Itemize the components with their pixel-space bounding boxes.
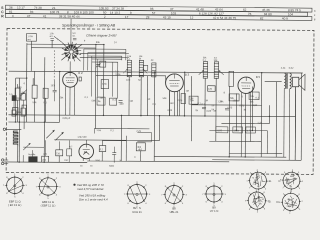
wire B6 top stub [85, 140, 87, 144]
capacitor C31 [112, 152, 116, 154]
svg-text:2: 2 [257, 169, 258, 171]
wire B3 pins [168, 91, 170, 116]
svg-text:8: 8 [249, 209, 250, 211]
trimmer cap C2b [73, 37, 76, 39]
svg-text:18: 18 [258, 200, 260, 202]
resistor R3 [43, 88, 48, 98]
svg-text:ant.: ant. [27, 38, 31, 41]
svg-text:104: 104 [288, 12, 293, 16]
svg-text:9: 9 [245, 200, 246, 202]
wire [113, 154, 115, 162]
svg-text:47: 47 [27, 14, 31, 18]
wire [51, 40, 53, 47]
wire [22, 100, 24, 108]
wire [125, 136, 127, 161]
svg-text:B8: B8 [172, 206, 176, 210]
svg-text:63: 63 [257, 186, 259, 188]
resistor R21 [181, 94, 186, 104]
wire vertical osc [121, 56, 123, 60]
wire vertical osc [83, 49, 85, 70]
capacitor C22 [202, 106, 206, 108]
wire [44, 140, 46, 156]
svg-text:9: 9 [130, 11, 132, 15]
tube socket diagram V5 (UY21) [206, 186, 222, 202]
svg-text:76: 76 [248, 12, 252, 16]
table row S [5, 5, 312, 12]
wire [173, 92, 175, 116]
svg-text:7: 7 [282, 187, 283, 189]
wire osc loop 3 [88, 55, 122, 57]
coil L6 [152, 63, 156, 77]
svg-text:B 3: B 3 [185, 73, 190, 77]
wire vertical [251, 87, 253, 131]
wire [17, 146, 19, 162]
wire vertical [268, 105, 270, 123]
wire mid bus [8, 115, 295, 117]
junction [19, 121, 20, 122]
wire [54, 36, 62, 42]
svg-text:6: 6 [298, 172, 299, 174]
coil box L3 [12, 108, 18, 115]
svg-text:82: 82 [260, 16, 264, 20]
svg-text:D.: D. [277, 200, 280, 204]
svg-text:1M: 1M [130, 100, 133, 103]
voltage diagram socket D [282, 193, 299, 210]
svg-text:62: 62 [243, 8, 247, 12]
svg-text:B 2: B 2 [78, 71, 83, 75]
wire vertical [183, 72, 185, 116]
svg-text:38 31 58 40 44: 38 31 58 40 44 [59, 14, 80, 18]
svg-text:82: 82 [262, 199, 264, 201]
switch contact S5 [23, 144, 29, 150]
svg-text:B6: B6 [84, 150, 88, 154]
svg-text:3: 3 [248, 193, 249, 195]
junction [184, 115, 185, 116]
trimmer arrow T1a [123, 70, 127, 74]
note text block [73, 184, 75, 186]
svg-text:B 5: B 5 [256, 75, 261, 79]
IF transformer T2 winding 2 [214, 62, 219, 79]
wire top bus 2 [31, 47, 95, 49]
capacitor C5 [79, 77, 81, 81]
wire left link b [16, 97, 21, 99]
resistor box R26 [216, 127, 228, 133]
coil box L1 [26, 34, 36, 42]
svg-text:42 6 54 34 36 75: 42 6 54 34 36 75 [213, 16, 237, 20]
wire osc loop 2 [88, 51, 126, 53]
wire vertical [140, 77, 142, 116]
svg-text:A.: A. [269, 179, 272, 183]
wire osc loop 4 [92, 58, 122, 60]
wire [101, 141, 103, 146]
svg-text:40 9: 40 9 [282, 17, 288, 21]
svg-text:74: 74 [252, 177, 254, 179]
svg-text:4: 4 [299, 188, 300, 190]
svg-text:2x50: 2x50 [95, 160, 101, 162]
svg-text:B9: B9 [212, 205, 216, 209]
svg-text:8: 8 [265, 172, 266, 174]
svg-text:( EF 13 Ω ): ( EF 13 Ω ) [8, 203, 21, 207]
junction [18, 161, 19, 162]
coupling box K4 [21, 108, 26, 116]
wire vertical osc [87, 52, 89, 70]
dropper box [56, 150, 63, 156]
wire vertical osc [125, 49, 127, 60]
gang link dashed [53, 50, 55, 80]
svg-text:12: 12 [190, 16, 194, 20]
svg-text:74 38: 74 38 [34, 6, 42, 10]
wire bias line [94, 128, 149, 130]
svg-text:B2 - S: B2 - S [133, 206, 141, 210]
capacitor C12 [143, 65, 148, 70]
svg-text:49: 49 [257, 177, 259, 179]
wire left link a [16, 77, 27, 79]
junction [204, 115, 205, 116]
wire vertical [102, 45, 104, 116]
wire [93, 129, 95, 134]
svg-text:14 10 2: 14 10 2 [110, 11, 121, 15]
svg-text:91: 91 [259, 203, 261, 205]
wire [58, 141, 60, 149]
wire vertical [128, 77, 130, 116]
wire vertical [58, 72, 60, 123]
svg-text:0,05: 0,05 [228, 106, 233, 109]
wire vertical [146, 76, 148, 116]
svg-text:2: 2 [104, 15, 106, 19]
wire [30, 41, 32, 71]
svg-text:1 SW: 1 SW [27, 36, 33, 38]
wire vertical osc [112, 62, 114, 96]
svg-text:4: 4 [257, 212, 258, 214]
switch S3 contact [55, 133, 62, 140]
wire [54, 80, 56, 90]
wire grid line [96, 74, 166, 76]
wire det line [209, 129, 267, 131]
wire [113, 147, 115, 153]
svg-text:ant: ant [49, 35, 52, 38]
component box Z2 [110, 98, 117, 105]
trimmer arrow 2 [220, 71, 224, 75]
junction [26, 77, 27, 78]
svg-text:Netafbr.: Netafbr. [28, 153, 36, 156]
wire vertical [300, 73, 303, 160]
svg-text:1M: 1M [205, 99, 208, 102]
svg-text:0,02: 0,02 [253, 105, 258, 107]
wire osc loop 1 [84, 48, 126, 50]
wire AVC bus right [221, 122, 269, 124]
wire left link c [16, 111, 21, 113]
svg-text:88: 88 [293, 175, 295, 177]
component box Z1 [97, 97, 105, 105]
svg-text:7: 7 [249, 188, 250, 190]
junction [245, 156, 246, 157]
tube B6 rectifier [79, 144, 94, 159]
mains terminal [1, 159, 3, 161]
capacitor C3 [53, 89, 57, 91]
resistor box R28 [246, 127, 256, 133]
wire B3 grid [165, 76, 167, 83]
svg-text:1,5k 500: 1,5k 500 [77, 136, 87, 139]
svg-text:EBF 11 Ω: EBF 11 Ω [42, 200, 54, 204]
junction [103, 115, 104, 116]
wire [54, 92, 56, 101]
svg-text:28: 28 [146, 15, 150, 19]
junction [121, 115, 122, 116]
junction [43, 162, 44, 163]
junction [140, 115, 141, 116]
wire [102, 140, 126, 142]
svg-text:150k: 150k [115, 73, 121, 76]
oscillator coil L5 [101, 80, 109, 89]
junction [261, 72, 262, 73]
tube socket diagram V2 (EBF11) [39, 178, 56, 195]
output transformer T3 [284, 73, 286, 89]
svg-text:4tr: 4tr [151, 59, 154, 62]
IF transformer T2 winding 1 [203, 62, 208, 79]
svg-text:51: 51 [288, 200, 290, 202]
tube B4 [238, 77, 254, 93]
junction [44, 122, 45, 123]
wire [4, 159, 8, 161]
svg-text:82: 82 [294, 178, 296, 180]
junction [15, 121, 16, 122]
wire [81, 43, 96, 45]
junction [269, 116, 270, 117]
wire vertical [275, 82, 277, 157]
table row C [5, 9, 307, 16]
wire [101, 152, 103, 161]
wire out line 2 [212, 159, 301, 162]
wire vertical [294, 87, 296, 160]
wire vertical osc [97, 59, 99, 96]
svg-text:4: 4 [12, 14, 14, 18]
junction [59, 71, 60, 72]
svg-text:9: 9 [283, 210, 284, 212]
wire [4, 162, 8, 164]
wire vertical [235, 93, 237, 130]
wire [44, 98, 46, 122]
wire fb line 2 [209, 140, 261, 142]
voltage diagram socket C [283, 172, 300, 189]
wire vertical [168, 91, 170, 116]
wire vertical [244, 93, 246, 156]
chassis dashed border [6, 29, 314, 175]
mains switch S4 [29, 157, 38, 163]
svg-text:93: 93 [30, 10, 34, 14]
svg-text:150: 150 [170, 102, 175, 105]
switch S2 contact [46, 131, 53, 138]
svg-text:100: 100 [126, 79, 131, 82]
svg-text:2: 2 [302, 201, 303, 203]
wire [73, 86, 75, 115]
wire [23, 146, 44, 148]
svg-text:71: 71 [253, 184, 255, 186]
svg-text:2: 2 [290, 191, 291, 193]
wire vertical [94, 45, 97, 129]
junction [229, 156, 230, 157]
coupling box K3 [12, 110, 16, 116]
svg-text:B.: B. [269, 199, 272, 203]
wire fb line [192, 104, 262, 106]
svg-text:1: 1 [289, 213, 290, 215]
wire vertical [43, 57, 46, 162]
wire osc coupling [80, 52, 129, 54]
wire [245, 93, 247, 156]
trimmer arrow T1b [144, 70, 148, 74]
svg-text:EBF 11 Ω: EBF 11 Ω [9, 199, 21, 203]
svg-text:2M: 2M [100, 97, 103, 100]
wire [69, 87, 71, 115]
wire vertical [190, 76, 192, 141]
svg-text:35: 35 [291, 205, 293, 207]
tube socket diagram V3 (UCH21) [128, 185, 147, 204]
wire left mid link [54, 139, 159, 142]
svg-text:1: 1 [246, 181, 247, 183]
junction [252, 130, 253, 131]
wire [249, 92, 251, 141]
coil box L4 [22, 105, 27, 115]
wire vertical [215, 78, 217, 141]
svg-text:9: 9 [256, 189, 257, 191]
svg-text:0,02: 0,02 [289, 67, 294, 70]
table row R [5, 14, 312, 21]
wire gnd link [87, 160, 229, 163]
wire vertical [176, 91, 178, 116]
speaker LS [292, 77, 298, 87]
svg-text:0,02: 0,02 [240, 104, 245, 107]
svg-text:30: 30 [253, 182, 255, 184]
wire [33, 98, 35, 122]
svg-text:Dim a 1 ørste med 4,4: Dim a 1 ørste med 4,4 [79, 197, 108, 201]
wire [16, 100, 18, 122]
wire vertical [228, 86, 230, 156]
svg-text:4: 4 [265, 188, 266, 190]
wire vertical [120, 116, 122, 162]
trimmer C2 [22, 91, 26, 93]
fuse box [42, 156, 49, 162]
junction [103, 44, 104, 45]
voltage diagram socket B [248, 192, 265, 209]
electrolytic C30 [136, 143, 145, 151]
tube socket diagram V4 (UBL21) [165, 186, 183, 204]
svg-text:72: 72 [254, 180, 256, 182]
wire [23, 115, 25, 129]
svg-text:1: 1 [292, 170, 293, 172]
svg-text:43 10: 43 10 [163, 15, 171, 19]
svg-text:( EBF 11 Ω ): ( EBF 11 Ω ) [41, 204, 56, 208]
trimmer arrow [199, 71, 203, 75]
wire B1 pins [64, 87, 66, 116]
svg-text:5: 5 [302, 181, 303, 183]
svg-text:UCH 21: UCH 21 [132, 210, 142, 214]
terminal T3 [3, 128, 5, 130]
resistor R2 [32, 85, 37, 98]
svg-text:8: 8 [264, 209, 265, 211]
svg-text:0,05: 0,05 [178, 99, 183, 102]
wire osc loop 5 [92, 61, 118, 63]
wire vertical osc [91, 56, 93, 96]
wire [58, 156, 60, 162]
mains terminal 2 [1, 162, 3, 164]
wire vertical [204, 78, 206, 116]
svg-text:39: 39 [291, 203, 293, 205]
coupling box K1 [12, 96, 16, 101]
svg-text:74: 74 [289, 186, 291, 188]
wire HT bus [9, 71, 303, 73]
wire [137, 141, 151, 143]
wire [150, 132, 152, 141]
svg-text:88: 88 [287, 179, 289, 181]
wire gnd bus [4, 161, 87, 164]
svg-text:9: 9 [299, 209, 300, 211]
wire vertical [14, 78, 16, 122]
wire [137, 131, 151, 133]
wire AVC bus [8, 121, 59, 123]
tube B3 [166, 74, 184, 92]
resistor R30 [67, 149, 72, 156]
tube B1 [63, 72, 78, 87]
coupling box K2 [21, 94, 26, 101]
svg-text:41: 41 [43, 14, 47, 18]
resistor R23 box [229, 94, 239, 101]
svg-text:13 17: 13 17 [17, 6, 25, 10]
svg-text:57: 57 [152, 11, 156, 15]
potentiometer P1 [229, 71, 234, 86]
svg-text:40: 40 [289, 206, 291, 208]
wire vertical [153, 72, 156, 161]
svg-text:1M: 1M [186, 91, 189, 93]
trimmer cap C1 [50, 38, 53, 40]
wire B4 pins [240, 93, 242, 157]
svg-text:17: 17 [125, 15, 129, 19]
svg-text:Spændingsmålinger · i Stilling: Spændingsmålinger · i Stilling AB [62, 24, 116, 28]
mains cap [99, 146, 106, 152]
wire vertical [158, 116, 160, 141]
wire [34, 71, 36, 85]
svg-text:R: R [1, 14, 4, 18]
svg-text:68: 68 [290, 176, 292, 178]
capacitor C20 [208, 86, 216, 92]
IF transformer T1 winding 1 [127, 60, 131, 77]
wire star to B1 top [69, 61, 71, 72]
tube socket diagram V1 (EBF11) [7, 177, 23, 193]
wire [22, 155, 24, 162]
capacitor C23 [225, 107, 229, 109]
junction [236, 130, 237, 131]
wire vertical [260, 73, 263, 157]
svg-text:0,05: 0,05 [217, 130, 222, 132]
svg-text:9: 9 [284, 172, 285, 174]
resistor box R27 [233, 127, 243, 133]
wire [13, 101, 15, 110]
wire [283, 89, 285, 157]
resistor R24 box [249, 92, 259, 100]
svg-text:UY 1 N: UY 1 N [210, 209, 219, 213]
wire switch stem [70, 19, 72, 46]
wire vertical osc [117, 62, 119, 98]
svg-text:103: 103 [171, 11, 176, 15]
trimmer arrow C8 [95, 63, 101, 69]
junction [159, 115, 160, 116]
wire [265, 81, 282, 83]
svg-text:0,05: 0,05 [167, 110, 172, 112]
wire [178, 90, 180, 115]
svg-text:8: 8 [299, 194, 300, 196]
wire out line [154, 155, 286, 158]
wire out rail 3 [229, 152, 282, 154]
svg-text:5: 5 [250, 172, 251, 174]
svg-text:UBL 21: UBL 21 [170, 210, 179, 214]
